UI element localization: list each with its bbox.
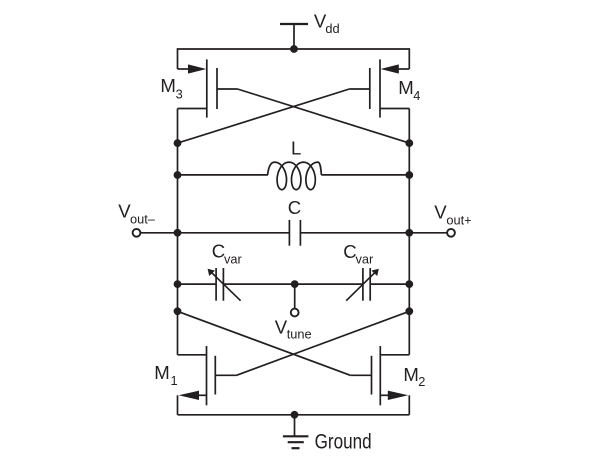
svg-text:M: M xyxy=(403,364,419,385)
svg-text:Ground: Ground xyxy=(315,431,372,454)
svg-text:var: var xyxy=(224,251,243,266)
svg-text:out–: out– xyxy=(130,212,156,227)
svg-text:4: 4 xyxy=(413,88,420,103)
svg-text:M: M xyxy=(154,362,170,383)
svg-text:out+: out+ xyxy=(446,212,471,227)
svg-text:3: 3 xyxy=(176,86,183,101)
svg-text:L: L xyxy=(291,137,301,158)
svg-text:M: M xyxy=(398,77,414,98)
svg-text:V: V xyxy=(434,201,447,222)
svg-text:C: C xyxy=(288,197,301,218)
svg-text:2: 2 xyxy=(418,374,425,389)
svg-text:1: 1 xyxy=(171,373,178,388)
svg-text:dd: dd xyxy=(325,21,339,36)
svg-text:M: M xyxy=(160,75,176,96)
svg-text:tune: tune xyxy=(287,326,312,341)
svg-text:var: var xyxy=(356,251,375,266)
